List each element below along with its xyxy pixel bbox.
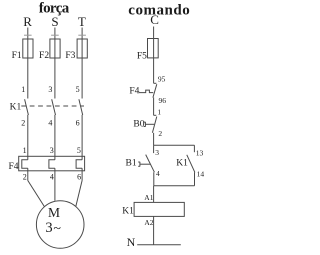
svg-text:3: 3 xyxy=(48,85,52,94)
svg-text:1: 1 xyxy=(21,85,25,94)
svg-text:3: 3 xyxy=(50,146,54,155)
svg-text:F3: F3 xyxy=(65,51,75,61)
svg-text:1: 1 xyxy=(157,107,161,116)
svg-text:T: T xyxy=(78,14,86,29)
svg-text:4: 4 xyxy=(50,173,54,182)
svg-text:S: S xyxy=(51,14,58,29)
svg-text:2: 2 xyxy=(23,173,27,182)
svg-text:4: 4 xyxy=(48,118,52,127)
svg-text:1: 1 xyxy=(23,146,27,155)
svg-text:5: 5 xyxy=(77,146,81,155)
svg-text:F5: F5 xyxy=(137,52,147,62)
svg-text:C: C xyxy=(150,12,159,27)
svg-text:K1: K1 xyxy=(10,102,22,112)
svg-text:B0: B0 xyxy=(133,119,144,129)
svg-text:14: 14 xyxy=(197,169,205,178)
svg-text:95: 95 xyxy=(158,75,166,84)
svg-text:13: 13 xyxy=(196,149,204,158)
svg-text:6: 6 xyxy=(76,118,80,127)
svg-text:5: 5 xyxy=(76,85,80,94)
svg-text:comando: comando xyxy=(128,2,190,18)
svg-text:3: 3 xyxy=(45,220,52,236)
svg-text:A1: A1 xyxy=(144,193,153,202)
svg-text:4: 4 xyxy=(156,169,160,178)
svg-text:3: 3 xyxy=(155,148,159,157)
svg-text:2: 2 xyxy=(158,129,162,138)
svg-text:R: R xyxy=(23,14,32,29)
svg-text:K1: K1 xyxy=(176,158,188,168)
svg-text:F2: F2 xyxy=(39,51,49,61)
svg-text:2: 2 xyxy=(21,118,25,127)
svg-text:F4: F4 xyxy=(129,86,139,96)
svg-text:A2: A2 xyxy=(144,218,153,227)
svg-text:N: N xyxy=(127,235,136,249)
svg-text:F4: F4 xyxy=(8,162,18,172)
svg-text:M: M xyxy=(48,205,60,220)
svg-text:96: 96 xyxy=(159,96,167,105)
svg-text:F1: F1 xyxy=(12,51,22,61)
svg-text:6: 6 xyxy=(77,173,81,182)
svg-text:B1: B1 xyxy=(126,158,137,168)
svg-text:~: ~ xyxy=(53,222,61,237)
svg-text:K1: K1 xyxy=(122,207,134,217)
